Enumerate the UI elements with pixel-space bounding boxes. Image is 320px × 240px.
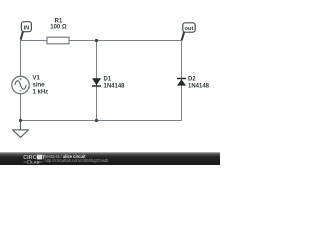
diode D1 (pointing down) [92, 77, 125, 90]
wire: V1 bottom terminal down to bottom-left junction [20, 94, 22, 121]
svg-text:1N4148: 1N4148 [188, 84, 210, 90]
wire: bottom horizontal from left junction to D1 bottom junction [21, 120, 97, 122]
svg-text:R1: R1 [55, 19, 63, 25]
svg-text:1N4148: 1N4148 [104, 84, 126, 90]
wire: top left horizontal, node in to R1 left terminal [21, 40, 48, 42]
watermark text [45, 154, 110, 163]
voltage source V1 [12, 76, 48, 96]
wire: D2 branch vertical [181, 41, 183, 121]
node junction dot (bottom, D1 branch) [95, 119, 98, 122]
watermark bar [0, 152, 220, 165]
diode D2 (pointing up) [177, 77, 210, 90]
wire: left vertical from in corner down to V1 top terminal [20, 40, 22, 77]
node flag OUT [182, 23, 196, 41]
svg-text:http://circuitlab.com/c/85hhg3: http://circuitlab.com/c/85hhg37cwtb [45, 158, 110, 163]
svg-text:out: out [185, 26, 194, 32]
svg-text:100 Ω: 100 Ω [50, 25, 67, 31]
node flag IN [21, 22, 32, 40]
svg-text:sine: sine [33, 83, 46, 89]
svg-text:V1: V1 [33, 76, 41, 82]
wire: bottom horizontal from D1 bottom junction to D2 corner [97, 120, 182, 122]
svg-text:LAB: LAB [31, 159, 39, 164]
svg-text:D1: D1 [104, 77, 112, 83]
svg-text:D2: D2 [188, 77, 196, 83]
resistor R1 [47, 19, 69, 44]
svg-text:1 kHz: 1 kHz [33, 90, 49, 96]
wire: R1 right terminal to D1 top junction [69, 40, 96, 42]
node junction dot (top, D1 branch) [95, 39, 98, 42]
ground [13, 121, 29, 138]
wire: D1 branch vertical [96, 41, 98, 121]
wire: D1 top junction to out corner [96, 40, 181, 42]
node junction dot (bottom left, ground) [19, 119, 22, 122]
svg-text:IN: IN [24, 25, 30, 31]
CircuitLab logo [23, 155, 46, 165]
